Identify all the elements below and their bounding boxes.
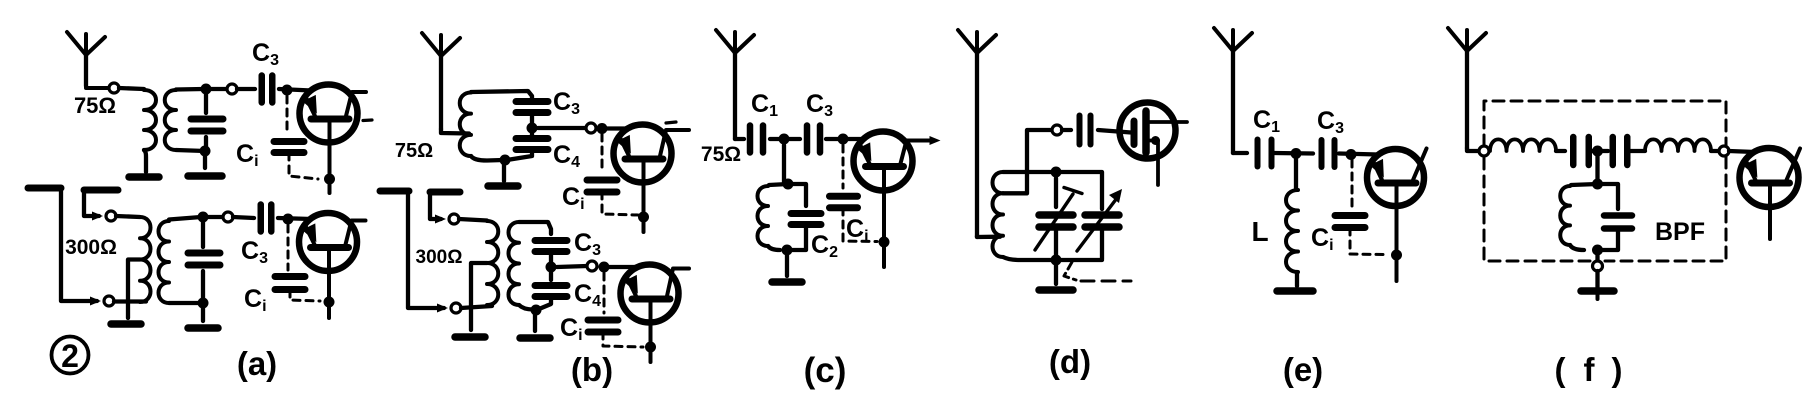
wire T1 sec bottom bbox=[176, 150, 205, 151]
wire T2 secondary top bbox=[169, 217, 201, 220]
label (b) bbox=[571, 351, 613, 388]
terminal upper (300-ohm a) bbox=[106, 211, 116, 221]
svg-text:Ci: Ci bbox=[236, 140, 259, 170]
transformer T1 secondary winding bbox=[165, 90, 176, 150]
terminal upper (300-ohm b) bbox=[449, 214, 459, 224]
capacitor Ci (a bottom) bbox=[275, 277, 305, 290]
svg-text:L: L bbox=[1251, 216, 1268, 247]
wire L1 bottom to node (b top) bbox=[471, 156, 503, 161]
inductor L1 (f) bbox=[1490, 139, 1556, 151]
capacitor C3 (a bottom) bbox=[261, 205, 272, 232]
wire C3 to transistor (e) bbox=[1339, 154, 1378, 155]
antenna ANT5 (section e) bbox=[1214, 28, 1252, 153]
label (c) bbox=[804, 351, 847, 390]
wire gate tap (d) bbox=[1003, 130, 1051, 193]
wire tank bottom to terminal (f) bbox=[1595, 250, 1599, 261]
dashed gang linkage (d) bbox=[1064, 262, 1131, 281]
dashed wire Ci to base node (e) bbox=[1350, 228, 1388, 255]
wire antenna to L1 tap (b) bbox=[441, 129, 469, 134]
transistor Q7 (f) bbox=[1740, 148, 1801, 239]
capacitor C4 (b top) bbox=[516, 130, 548, 150]
BPF dashed box bbox=[1484, 101, 1726, 261]
label Ci (e) bbox=[1311, 224, 1334, 254]
dash mark right of Q1 bbox=[363, 118, 372, 122]
node T2 sec top bbox=[198, 212, 209, 223]
label C4 (b bottom) bbox=[574, 280, 601, 310]
arrow upper terminal (b) bbox=[435, 215, 446, 224]
capacitor C2 (c) bbox=[788, 184, 821, 250]
label 300-ohm (b) bbox=[416, 247, 463, 268]
label (a) bbox=[237, 345, 277, 382]
wire to transistor (b bottom) bbox=[609, 265, 638, 269]
ground (L2 tap b) bbox=[455, 333, 485, 341]
wire C3 to node (b top) bbox=[530, 113, 534, 126]
svg-text:2: 2 bbox=[61, 338, 79, 374]
svg-text:C4: C4 bbox=[553, 141, 580, 171]
node L1 bottom (b top) bbox=[500, 155, 511, 166]
wire feeder bar2 down (b) bbox=[430, 192, 441, 219]
dashed wire Ci to base node (c) bbox=[843, 208, 877, 242]
capacitor C3 (e) bbox=[1322, 140, 1335, 167]
wire to transistor (b top) bbox=[607, 126, 628, 130]
transformer T2 secondary winding bbox=[159, 221, 170, 303]
svg-text:f: f bbox=[1584, 351, 1596, 388]
wire antenna to BPF input terminal bbox=[1467, 148, 1479, 151]
transistor Q3 (b top) bbox=[614, 125, 690, 233]
dashed wire node to Ci (b top) bbox=[601, 134, 604, 172]
svg-text:C1: C1 bbox=[1253, 106, 1280, 136]
node tank top (c) bbox=[783, 179, 794, 190]
label Ci (a top) bbox=[236, 140, 259, 170]
node after C3 (e) bbox=[1346, 149, 1357, 160]
svg-text:75Ω: 75Ω bbox=[395, 140, 433, 162]
svg-text:Ci: Ci bbox=[244, 285, 267, 315]
capacitor Ci (a top) bbox=[274, 142, 304, 153]
label 75-ohm (b) bbox=[395, 140, 433, 162]
label Ci (b bottom) bbox=[560, 314, 583, 344]
node tank top (d) bbox=[1051, 167, 1062, 178]
transistor Q1 (a top) bbox=[300, 85, 367, 194]
ground (b top) bbox=[488, 182, 518, 190]
label C3 (b top) bbox=[553, 88, 580, 118]
wire C1 to node (c) bbox=[770, 137, 800, 141]
antenna ANT6 (section f) bbox=[1448, 28, 1486, 148]
label 300-ohm (a) bbox=[65, 236, 117, 259]
ground (L e) bbox=[1277, 287, 1313, 295]
terminal (b bottom) bbox=[587, 261, 597, 271]
wire C3 to node (b bottom) bbox=[549, 252, 553, 264]
svg-text:BPF: BPF bbox=[1655, 218, 1705, 246]
arrow CV2 (d) bbox=[1077, 189, 1122, 251]
wire T1 secondary top to node bbox=[176, 87, 203, 92]
T2 primary centre tap to ground bbox=[128, 260, 140, 319]
wire L2 sec top to C3 (b bottom) bbox=[519, 222, 551, 234]
wire terminal to transistor (f) bbox=[1729, 151, 1755, 152]
wire cap2 to L2 (f) bbox=[1629, 149, 1645, 153]
dashed wire node to Ci (a top) bbox=[286, 96, 289, 134]
variable capacitor CV1 (d) bbox=[1039, 178, 1073, 257]
svg-text:C4: C4 bbox=[574, 280, 601, 310]
dashed wire Ci to base node (a bottom) bbox=[290, 290, 320, 301]
svg-text:Ci: Ci bbox=[562, 183, 585, 213]
label BPF bbox=[1655, 218, 1705, 246]
wire tank coil bottom (f) bbox=[1570, 245, 1584, 250]
terminal (75-ohm input a) bbox=[109, 83, 119, 93]
dashed wire node to Ci (e) bbox=[1351, 160, 1354, 206]
wire node to terminal (b bottom) bbox=[557, 266, 587, 267]
wire terminal to C3 (a top) bbox=[237, 87, 255, 91]
svg-text:(e): (e) bbox=[1283, 351, 1323, 388]
terminal BPF output (f) bbox=[1719, 146, 1729, 156]
wire node to terminal (a bottom) bbox=[208, 215, 223, 219]
antenna ANT4 (section d) bbox=[958, 30, 996, 237]
node after terminal (b top) bbox=[597, 123, 608, 134]
inductor L (e) bbox=[1286, 190, 1298, 272]
wire terminal to T2 primary bbox=[116, 216, 140, 217]
dashed wire Ci to base node (a top) bbox=[289, 153, 318, 179]
node after terminal (b bottom) bbox=[599, 262, 610, 273]
label C2 (c) bbox=[811, 231, 838, 261]
label Ci (a bottom) bbox=[244, 285, 267, 315]
wire terminal to C3 (a bottom) bbox=[233, 217, 254, 218]
wire antenna to terminal bbox=[86, 86, 109, 88]
wire C4 to bottom node (b bottom) bbox=[539, 297, 551, 309]
wire terminal to cap (d) bbox=[1062, 128, 1071, 132]
svg-text:): ) bbox=[1612, 351, 1623, 388]
label Ci (b top) bbox=[562, 183, 585, 213]
arrow lower terminal (a) bbox=[90, 297, 101, 306]
figure number 2 circled bbox=[52, 337, 89, 375]
svg-text:(a): (a) bbox=[237, 345, 277, 382]
capacitor Ci (b top) bbox=[587, 180, 617, 192]
dashed wire node to Ci (b bottom) bbox=[603, 273, 606, 313]
wire terminal to L2 (b) bbox=[459, 219, 487, 221]
variable capacitor CV2 (d) bbox=[1085, 215, 1119, 259]
node tank top (f) bbox=[1592, 179, 1603, 190]
wire node down to tank (f) bbox=[1595, 156, 1599, 181]
ground (tank c) bbox=[772, 278, 802, 286]
svg-text:300Ω: 300Ω bbox=[416, 247, 463, 268]
wire feeder bar1 down (b) bbox=[408, 191, 444, 308]
capacitor C3 (c) bbox=[807, 126, 820, 153]
ground (b bottom) bbox=[520, 334, 550, 342]
svg-text:(d): (d) bbox=[1049, 343, 1091, 380]
dash mark above Q3 collector bbox=[666, 122, 676, 123]
terminal BPF input (f) bbox=[1479, 146, 1489, 156]
label C3 (a bottom) bbox=[241, 237, 268, 267]
svg-text:300Ω: 300Ω bbox=[65, 236, 117, 259]
transistor Q6 (e) bbox=[1367, 149, 1427, 282]
transformer T2 primary winding bbox=[140, 217, 151, 302]
ground (f) bbox=[1581, 291, 1614, 299]
svg-text:C1: C1 bbox=[751, 90, 778, 120]
svg-text:C3: C3 bbox=[252, 39, 279, 69]
wire C3 to transistor (c) bbox=[826, 137, 865, 141]
label (e) bbox=[1283, 351, 1323, 388]
capacitor C4 (b bottom) bbox=[535, 269, 567, 297]
wire node to ground (b bottom) bbox=[533, 310, 537, 331]
svg-text:C3: C3 bbox=[1317, 107, 1344, 137]
terminal lower (300-ohm a) bbox=[104, 296, 114, 306]
antenna ANT2 (section b) bbox=[422, 33, 460, 129]
trimmer arrow CV1 (d) bbox=[1035, 188, 1082, 251]
wire C3 to transistor (a bottom) bbox=[278, 218, 311, 219]
svg-text:(c): (c) bbox=[804, 351, 847, 390]
label C3 (a top) bbox=[252, 39, 279, 69]
wire node down to tank (c) bbox=[782, 145, 786, 182]
wire node to terminal 2 (a top) bbox=[211, 87, 227, 91]
node after C3 (a bottom) bbox=[283, 214, 294, 225]
dashed wire node to Ci (c) bbox=[842, 145, 845, 188]
label C1 (c) bbox=[751, 90, 778, 120]
node after C3 (c) bbox=[838, 134, 849, 145]
wire terminal to ground (f) bbox=[1595, 271, 1599, 287]
wire terminal to transformer T1 primary bbox=[119, 88, 144, 89]
wire L1 top to C3 (b top) bbox=[471, 91, 532, 100]
node after C1 (c) bbox=[779, 134, 790, 145]
wire tank top left (f) bbox=[1571, 184, 1598, 185]
wire node to ground (a top) bbox=[203, 151, 207, 168]
wire tank top left (c) bbox=[769, 184, 788, 185]
wire tank coil bottom (c) bbox=[768, 246, 780, 250]
capacitor C3 (b bottom) bbox=[535, 241, 567, 252]
arrow lower terminal (b) bbox=[437, 304, 448, 313]
wire tank bottom (d) bbox=[1003, 257, 1102, 260]
capacitor series 2 (f) bbox=[1613, 137, 1628, 165]
node after C1 (e) bbox=[1291, 148, 1302, 159]
label C3 (b bottom) bbox=[574, 229, 601, 259]
inductor tank (c) bbox=[758, 186, 769, 246]
ground (T1 primary) bbox=[129, 173, 159, 181]
inductor L2 primary (b) bbox=[487, 221, 498, 305]
label C3 (c) bbox=[806, 90, 833, 120]
wire feeder bar1 down to lower terminal (a) bbox=[61, 188, 97, 301]
wire feeder bar2 down to upper terminal (a) bbox=[84, 190, 99, 216]
wire L2 sec bottom to node (b bottom) bbox=[519, 305, 533, 310]
transistor Q2 (a bottom) bbox=[299, 213, 366, 318]
inductor tank coil (d) bbox=[993, 172, 1004, 257]
wire antenna to C1 (c) bbox=[735, 137, 744, 141]
svg-text:75Ω: 75Ω bbox=[74, 93, 116, 118]
svg-text:Ci: Ci bbox=[560, 314, 583, 344]
wire C4 to bottom node (b top) bbox=[507, 150, 532, 160]
capacitor Ci (c) bbox=[830, 196, 858, 208]
node T1 sec top bbox=[201, 84, 212, 95]
node tank bottom (f) bbox=[1592, 245, 1603, 256]
label (d) bbox=[1049, 343, 1091, 380]
node centre (f) bbox=[1592, 146, 1603, 157]
balanced feeder bar 2 (a) bbox=[84, 187, 118, 194]
capacitor Ci (e) bbox=[1335, 216, 1365, 228]
L2 centre tap to ground (b) bbox=[471, 263, 487, 330]
balanced feeder bar 2 (b) bbox=[430, 189, 460, 196]
balanced feeder bar 1 (b) bbox=[380, 188, 409, 195]
wire L1 to cap1 (f) bbox=[1556, 149, 1565, 153]
svg-text:C3: C3 bbox=[553, 88, 580, 118]
inductor L2 secondary (b) bbox=[509, 222, 520, 305]
node T1 sec bottom bbox=[200, 146, 211, 157]
terminal (a bottom, to C3) bbox=[223, 212, 233, 222]
inductor L1 (75-ohm coil, b) bbox=[460, 93, 471, 157]
svg-text:Ci: Ci bbox=[1311, 224, 1334, 254]
FET V1 (d) bbox=[1120, 103, 1188, 186]
inductor L2 (f) bbox=[1645, 139, 1711, 151]
capacitor C1 (c) bbox=[750, 126, 763, 153]
wire cap to gate (d) bbox=[1098, 130, 1131, 133]
wire node to ground (b top) bbox=[502, 160, 506, 181]
label 75-ohm (c) bbox=[701, 143, 741, 166]
capacitor Ci (b bottom) bbox=[588, 320, 618, 332]
transformer T1 primary winding bbox=[144, 90, 156, 150]
node after C3 (a top) bbox=[282, 85, 293, 96]
wire coil top (d) bbox=[1003, 170, 1052, 174]
ground (T2 tap) bbox=[111, 320, 141, 328]
wire C3 to transistor (a top) bbox=[279, 89, 311, 91]
capacitor coupling (d) bbox=[1080, 116, 1091, 145]
wire C1 to node (e) bbox=[1274, 151, 1313, 156]
ground (T2 secondary) bbox=[188, 324, 218, 332]
label Ci (c) bbox=[846, 215, 869, 245]
capacitor across T1 secondary bbox=[191, 94, 223, 148]
terminal (a top, to C3) bbox=[227, 84, 237, 94]
node L2 sec bottom (b) bbox=[531, 305, 542, 316]
wire cap1 to node (f) bbox=[1590, 149, 1608, 153]
capacitor across T2 secondary bbox=[188, 222, 220, 299]
dashed wire Ci to base node (b top) bbox=[602, 192, 638, 215]
ground (T1 secondary) bbox=[188, 172, 222, 180]
transistor Q5 (c) bbox=[854, 132, 941, 268]
capacitor C1 (e) bbox=[1258, 140, 1272, 167]
wire T1 primary to ground bbox=[144, 150, 146, 172]
node between C3 C4 (b bottom) bbox=[546, 262, 557, 273]
wire L to ground (e) bbox=[1295, 272, 1299, 286]
label (f) bbox=[1555, 351, 1623, 388]
capacitor tank (f) bbox=[1598, 184, 1633, 250]
svg-text:C3: C3 bbox=[806, 90, 833, 120]
wire antenna to coil tap (d) bbox=[977, 236, 1000, 237]
label C4 (b top) bbox=[553, 141, 580, 171]
dashed wire node to Ci (a bottom) bbox=[287, 225, 290, 270]
svg-text:C3: C3 bbox=[574, 229, 601, 259]
inductor tank (f) bbox=[1560, 186, 1570, 245]
capacitor series 1 (f) bbox=[1573, 137, 1589, 165]
wire antenna to C1 (e) bbox=[1233, 151, 1247, 155]
label C1 (e) bbox=[1253, 106, 1280, 136]
capacitor C3 (a top) bbox=[262, 76, 273, 103]
node tank bottom (c) bbox=[782, 245, 793, 256]
wire node down to L (e) bbox=[1294, 159, 1298, 189]
node tank bottom (d) bbox=[1051, 255, 1062, 266]
terminal ground (f) bbox=[1593, 261, 1603, 271]
wire lower terminal to T2 primary bottom bbox=[114, 299, 146, 303]
wire node to ground (a bottom) bbox=[201, 303, 205, 321]
terminal (d) bbox=[1052, 125, 1062, 135]
arrow upper terminal (a) bbox=[92, 212, 103, 221]
label 75-ohm (a) bbox=[74, 93, 116, 118]
wire top to right branch (d) bbox=[1056, 172, 1102, 209]
label C3 (e) bbox=[1317, 107, 1344, 137]
wire T2 sec bottom bbox=[169, 301, 203, 305]
wire node to terminal (b top) bbox=[538, 126, 586, 130]
ground (tank d) bbox=[1039, 286, 1073, 294]
svg-text:C3: C3 bbox=[241, 237, 268, 267]
antenna ANT1 (75-ohm input, section a) bbox=[67, 32, 105, 86]
wire lower terminal to L2 bottom (b) bbox=[461, 306, 492, 308]
wire L2 to output terminal (f) bbox=[1711, 149, 1719, 153]
balanced feeder bar 1 (a) bbox=[28, 185, 61, 192]
node T2 sec bottom bbox=[198, 298, 209, 309]
node between C3 C4 (b top) bbox=[527, 123, 538, 134]
label L (e) bbox=[1251, 216, 1268, 247]
transistor Q4 (b bottom) bbox=[621, 265, 690, 363]
wire tank bottom to ground (c) bbox=[785, 250, 789, 276]
dashed wire Ci to base node (b bottom) bbox=[603, 332, 643, 347]
svg-text:(b): (b) bbox=[571, 351, 613, 388]
terminal lower (300-ohm b) bbox=[451, 303, 461, 313]
svg-text:C2: C2 bbox=[811, 231, 838, 261]
svg-text:75Ω: 75Ω bbox=[701, 143, 741, 166]
capacitor C3 (b top) bbox=[516, 102, 548, 113]
svg-text:(: ( bbox=[1555, 351, 1566, 388]
antenna ANT3 (section c) bbox=[716, 30, 754, 139]
wire node to ground (d) bbox=[1054, 260, 1058, 284]
terminal (b top) bbox=[586, 123, 596, 133]
